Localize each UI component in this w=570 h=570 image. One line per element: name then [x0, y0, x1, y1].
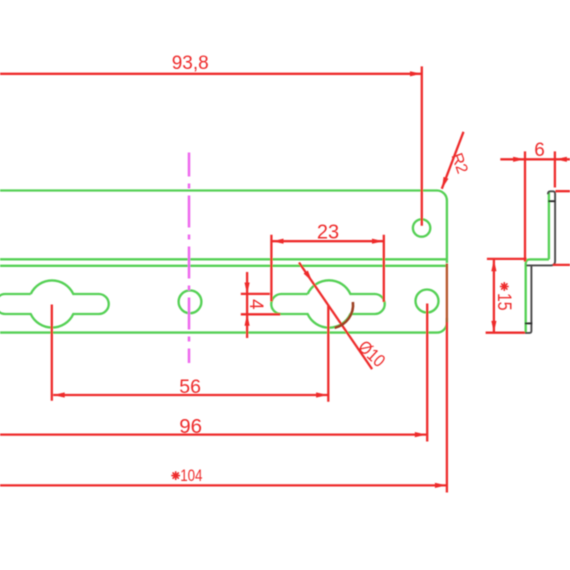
svg-text:4: 4: [245, 299, 266, 310]
leader diameter 10: line through slot circle: [299, 263, 372, 370]
side view: top end tick: [548, 200, 555, 202]
svg-text:23: 23: [317, 222, 339, 244]
hole bottom right: [416, 290, 439, 313]
dimension 96: extension line: [426, 304, 428, 442]
dimension 104: extension line (red below part): [446, 264, 448, 493]
side view: inner surface dark (top cap, right surface, step bottom): [526, 191, 555, 265]
dimension 6: line between extensions: [525, 158, 556, 160]
side view: outer surface green (top flange left, step top, bottom flange left): [526, 192, 549, 332]
dimension 56: arrows: [53, 392, 64, 397]
svg-text:Ø10: Ø10: [354, 337, 389, 371]
bend line lower: [0, 265, 447, 267]
svg-text:R2: R2: [448, 151, 471, 176]
dimension 56: extension lines: [52, 305, 329, 402]
svg-text:15: 15: [493, 293, 514, 311]
leader R2: line: [442, 132, 464, 189]
leader R2: arrow: [439, 177, 448, 190]
keyhole slot left (stadium with centre boss): [0, 280, 109, 327]
side view: bottom end tick: [525, 322, 532, 324]
dimension 56: line: [53, 394, 327, 396]
svg-text:104: 104: [180, 466, 202, 485]
centerline (magenta dash-dot): [188, 153, 191, 364]
red extension stubs right of side view: [553, 191, 570, 265]
dimension 15: star symbol and text (rotated): [493, 282, 514, 310]
svg-text:96: 96: [179, 415, 202, 438]
dimension 4: arrows: [245, 283, 250, 295]
dimension 6 (side view): tail lines with outside arrows: [500, 158, 570, 160]
dimension 15: arrows: [491, 260, 496, 272]
leader diameter 10: red arc overlap on circle: [335, 302, 353, 328]
dimension 4: dimension line vertical: [246, 272, 248, 338]
dimension 15: extension lines: [486, 259, 527, 333]
dimension 23: arrows: [272, 239, 284, 244]
bend line upper: [0, 258, 447, 260]
dimension 4: extension lines: [241, 294, 280, 314]
svg-text:56: 56: [179, 376, 201, 398]
svg-text:6: 6: [534, 140, 545, 161]
hole top right: [413, 219, 430, 236]
dimension 23: extension lines: [271, 235, 383, 302]
dimension 93,8: extension line to top-right hole: [421, 66, 423, 225]
keyhole slot right (stadium with centre boss): [271, 280, 385, 327]
svg-text:93,8: 93,8: [172, 53, 209, 74]
leader diameter 10: arrow: [304, 271, 315, 283]
dimension 96: arrow: [415, 432, 427, 437]
dimension 104: arrow: [435, 483, 447, 488]
dimension 96: line: [0, 433, 426, 435]
dimension 23: line: [272, 240, 384, 242]
part outline: top edge with rounded corner R2 (front view): [0, 191, 447, 264]
dimension 104: line: [0, 484, 446, 486]
side view: bottom flange right surface dark: [525, 265, 532, 333]
dimension 104: star symbol: [171, 471, 180, 480]
dimension 93,8: arrow: [410, 71, 422, 76]
centre hole (middle small circle): [179, 290, 202, 313]
part outline: bottom edge with rounded corner (front view): [0, 318, 447, 333]
dimension 6: extension lines: [525, 151, 555, 261]
dimension 104: overlap segment brown on part edge: [446, 264, 448, 323]
dimension 93,8: line: [0, 73, 422, 75]
dimension 15 (side view): dimension line vertical: [493, 260, 495, 333]
